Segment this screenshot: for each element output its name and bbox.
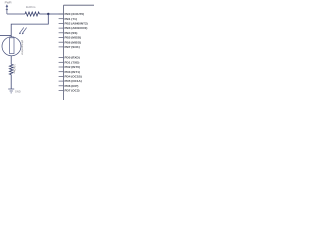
pin stub PB4: [59, 32, 64, 34]
wire R1 to junction: [39, 13, 48, 15]
pin stub PD1: [59, 61, 64, 63]
svg-text:PD6 (ICP): PD6 (ICP): [65, 84, 79, 88]
pin stub PD3: [59, 71, 64, 73]
resistor R1 (1kOhm, horizontal zigzag): [25, 12, 39, 16]
svg-text:PWR: PWR: [5, 1, 13, 5]
IC U1 left edge: [63, 5, 65, 100]
pin stub PB3: [59, 27, 64, 29]
pin stub PB5: [59, 37, 64, 39]
pin stub PB0: [59, 13, 64, 15]
wire stub leaving left edge: [0, 35, 11, 37]
wire junction to IC pin PB0: [48, 13, 63, 15]
pin stub PB1: [59, 18, 64, 20]
svg-text:PB3 (AIN1/OC0): PB3 (AIN1/OC0): [65, 26, 88, 30]
svg-text:PD1 (TXD): PD1 (TXD): [65, 60, 80, 64]
svg-text:PB0 (XCK/T0): PB0 (XCK/T0): [65, 12, 85, 16]
pin stub PD0: [59, 57, 64, 59]
pin stub PD6: [59, 85, 64, 87]
light arrow 1: [19, 27, 24, 34]
svg-text:PD3 (INT1): PD3 (INT1): [65, 70, 80, 74]
pin stub PD2: [59, 66, 64, 68]
light arrow 2: [22, 28, 27, 35]
wire PWR to resistor R1: [7, 13, 25, 15]
wire R2 to ground: [10, 75, 12, 89]
pin stub PD4: [59, 75, 64, 77]
resistor R2 (10kOhm, vertical zigzag): [9, 64, 13, 74]
svg-text:PB1 (T1): PB1 (T1): [65, 17, 77, 21]
svg-text:GND: GND: [15, 89, 21, 93]
IC U1 top edge: [64, 4, 95, 6]
svg-text:PB5 (MOSI): PB5 (MOSI): [65, 36, 82, 40]
svg-text:PD7 (OC2): PD7 (OC2): [65, 89, 80, 93]
svg-text:photoresistor: photoresistor: [21, 40, 25, 55]
svg-text:PD5 (OC1A): PD5 (OC1A): [65, 79, 82, 83]
ground symbol: [8, 89, 14, 93]
svg-text:10kOhm: 10kOhm: [13, 64, 16, 73]
pin stub PB6: [59, 41, 64, 43]
pin stub PD5: [59, 80, 64, 82]
power symbol PWR (up arrow): [6, 7, 8, 14]
pin stub PB2: [59, 22, 64, 24]
pin stub PB7: [59, 46, 64, 48]
photoresistor LDR1 (circle): [2, 37, 21, 56]
wire LDR bottom to resistor R2: [10, 56, 12, 64]
svg-text:PB6 (MISO): PB6 (MISO): [65, 40, 82, 44]
svg-text:PD4 (OC1B): PD4 (OC1B): [65, 74, 82, 78]
svg-text:PD2 (INT0): PD2 (INT0): [65, 65, 80, 69]
svg-text:PB4 (SS): PB4 (SS): [65, 31, 78, 35]
photoresistor body rect: [10, 38, 14, 54]
svg-text:PD0 (RXD): PD0 (RXD): [65, 56, 80, 60]
junction node: [47, 13, 49, 15]
svg-text:PB2 (AIN0/INT2): PB2 (AIN0/INT2): [65, 21, 88, 25]
svg-text:1kOhm: 1kOhm: [26, 5, 36, 9]
pin stub PD7: [59, 90, 64, 92]
svg-text:PB7 (SCK): PB7 (SCK): [65, 45, 80, 49]
wire junction down-left to photoresistor top: [11, 14, 48, 37]
